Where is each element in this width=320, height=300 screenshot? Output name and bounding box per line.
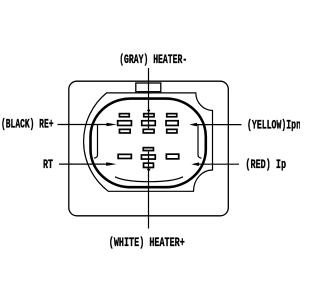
leader HEATER+ vertical wire xyxy=(148,152,150,229)
wire RT arrow xyxy=(59,163,107,165)
top locking tab xyxy=(136,83,161,92)
seal oval (thick) xyxy=(91,99,206,188)
connector housing outer box xyxy=(69,81,229,216)
pin 6 bottom-right (Ip) xyxy=(166,154,178,159)
wire Ip arrow xyxy=(199,163,240,165)
svg-text:(RED) Ip: (RED) Ip xyxy=(245,157,286,172)
pin 2 top-middle (HEATER-) xyxy=(142,114,156,133)
pin 1 top-left (RE+) xyxy=(118,114,132,133)
pin 3 top-right (Ipn) xyxy=(166,114,178,133)
wire Ipn arrow xyxy=(197,124,242,126)
leader HEATER+ arrowhead xyxy=(147,169,151,172)
svg-text:(WHITE) HEATER+: (WHITE) HEATER+ xyxy=(109,235,185,250)
pin 4 bottom-left (RT) xyxy=(118,154,131,158)
cavity wall left chord xyxy=(94,124,98,158)
svg-text:(BLACK) RE+: (BLACK) RE+ xyxy=(1,116,54,131)
svg-text:(YELLOW)Ipn: (YELLOW)Ipn xyxy=(247,117,300,132)
cavity floor arc xyxy=(115,177,183,182)
wire RE+ arrow xyxy=(58,124,108,126)
pin 5 bottom-middle (HEATER+) xyxy=(141,148,155,168)
leader HEATER- vertical wire xyxy=(148,68,150,128)
svg-text:RT: RT xyxy=(43,157,53,172)
housing face outline xyxy=(84,93,213,191)
leader HEATER- arrow dot xyxy=(147,109,150,113)
svg-text:(GRAY) HEATER-: (GRAY) HEATER- xyxy=(119,52,187,67)
cavity wall right chord xyxy=(198,125,202,159)
